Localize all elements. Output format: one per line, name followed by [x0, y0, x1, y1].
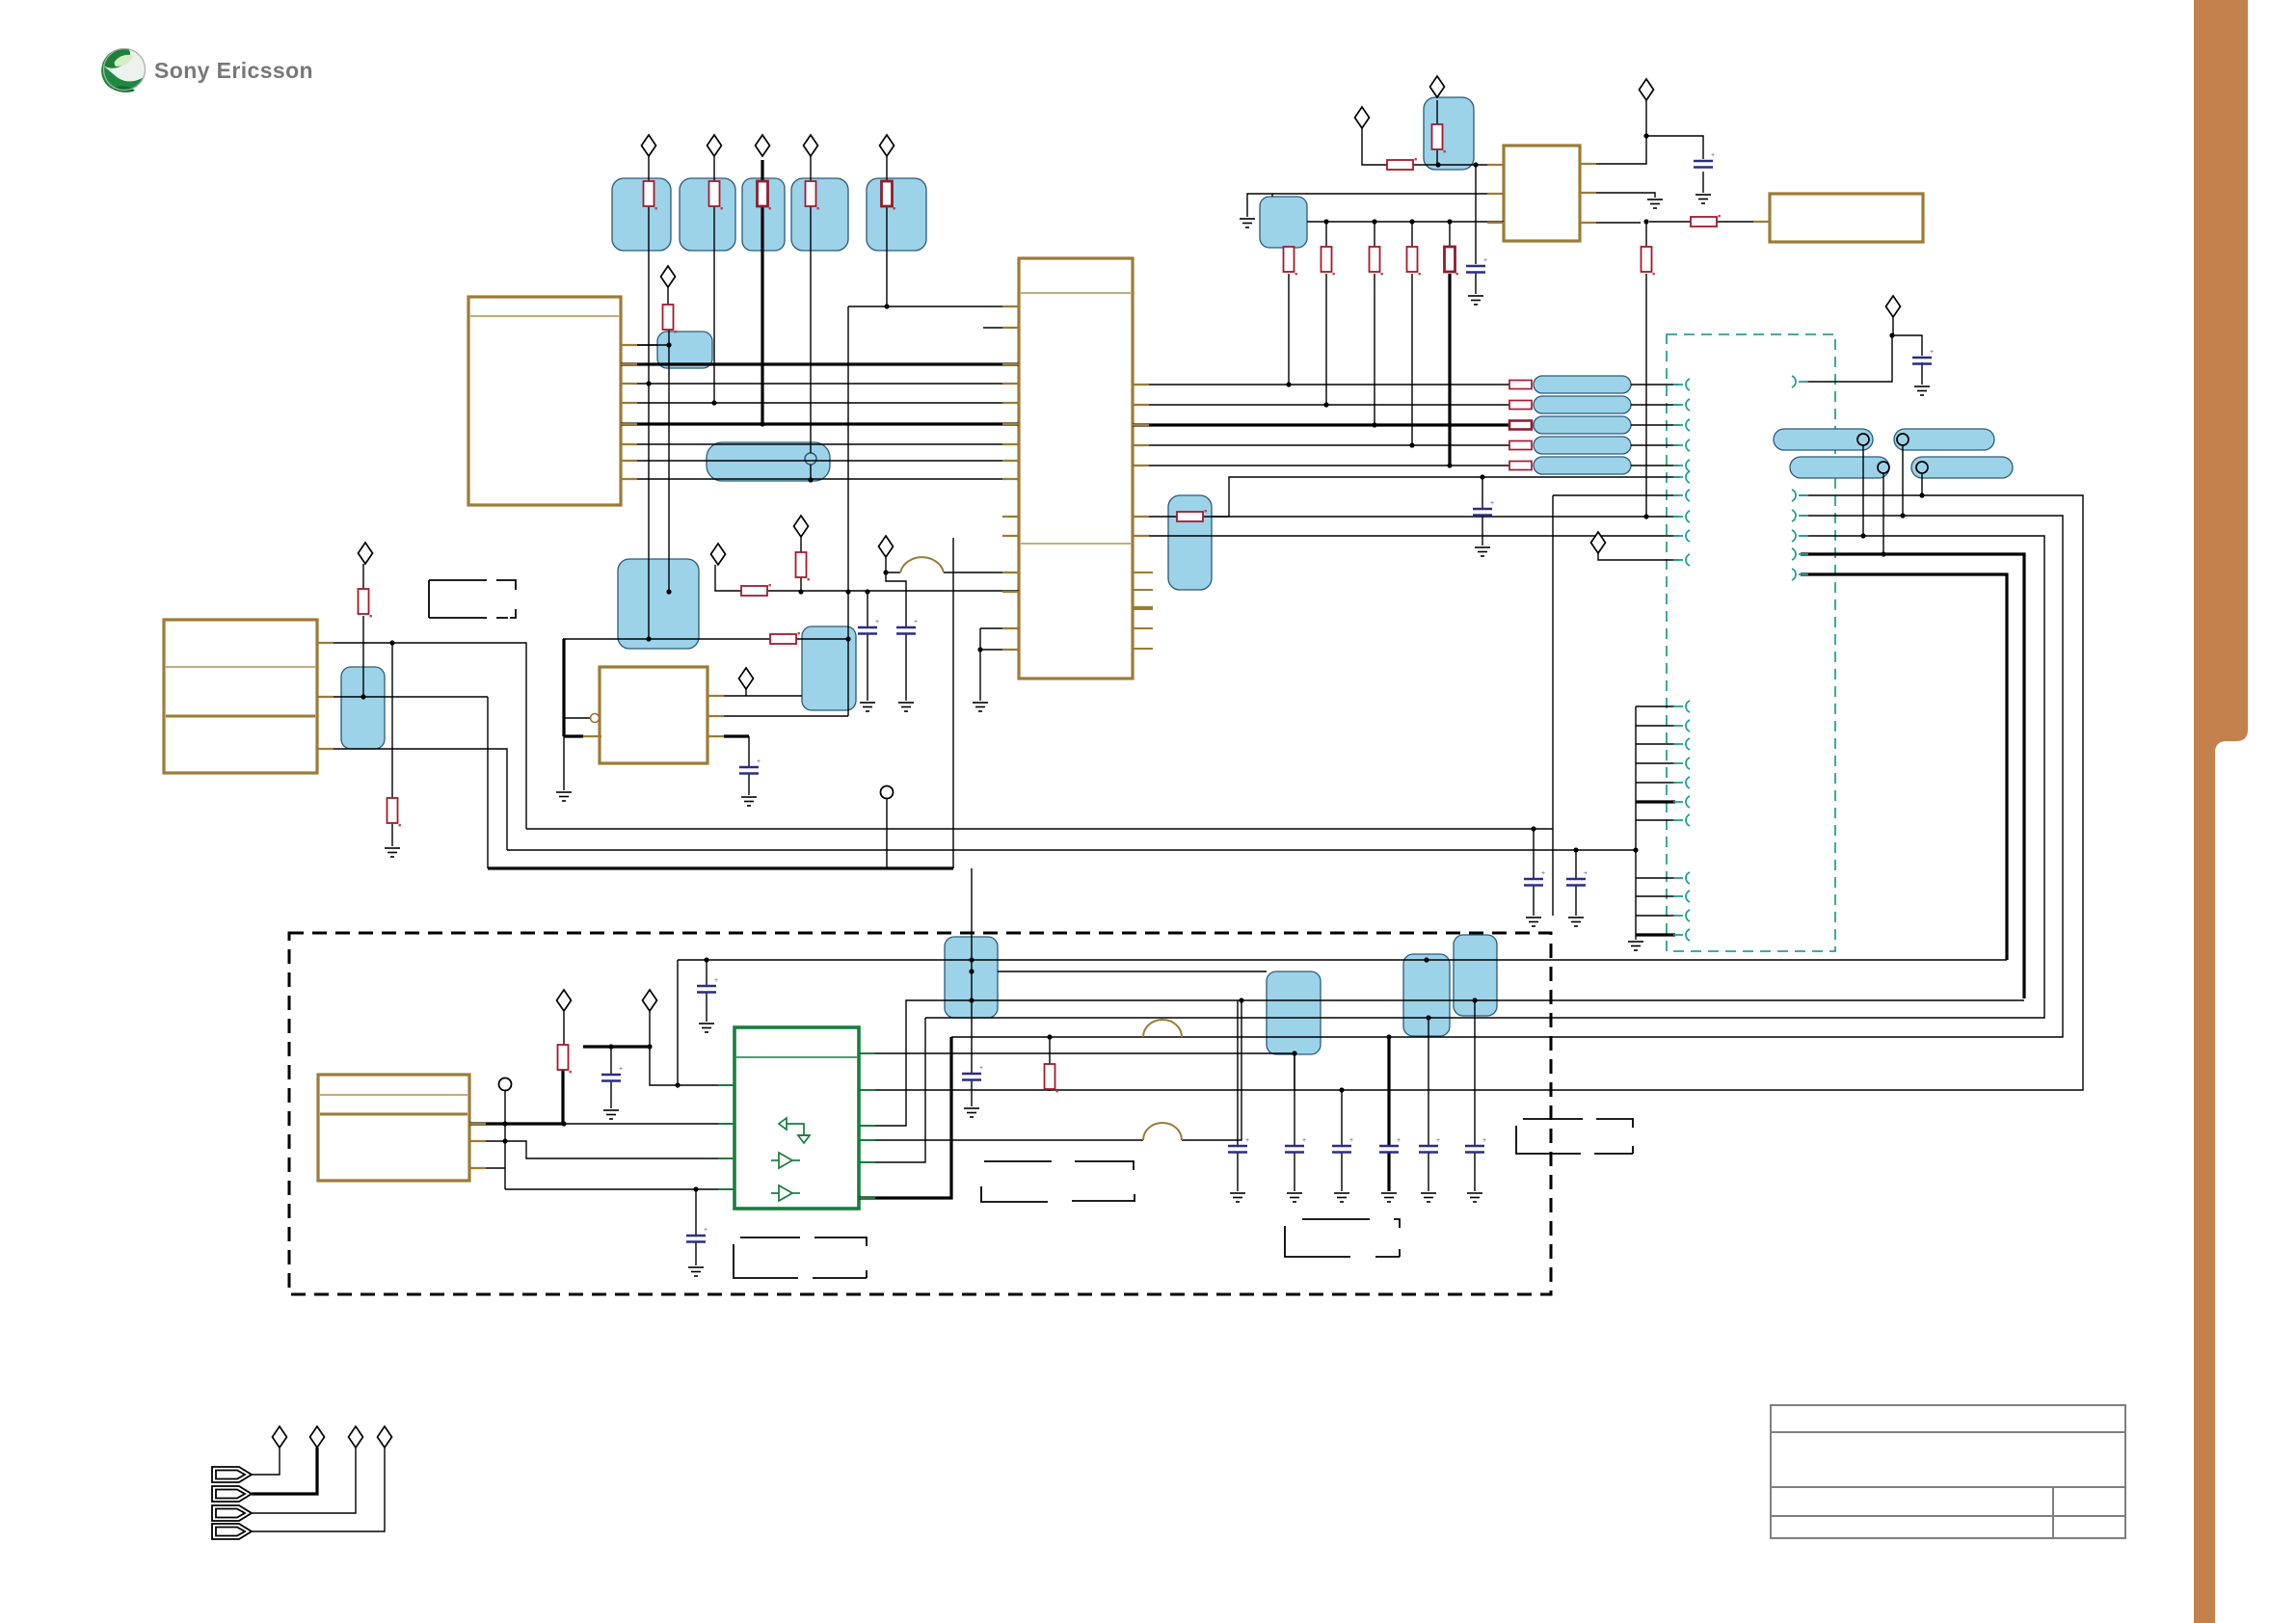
capacitor C4 [896, 619, 918, 634]
highlight box N13 [1168, 495, 1212, 590]
wire connector to diamond F [1806, 335, 1892, 382]
wire u6 bubble link [564, 717, 590, 719]
highlight box N9 [802, 626, 856, 710]
pad circle on pill P9 [1916, 462, 1928, 473]
wire pills to connector [1631, 385, 1679, 466]
resistor R18 [1642, 247, 1655, 275]
resistor R9 [387, 798, 401, 826]
resistor R1 [644, 181, 657, 209]
wire bold main battery net [488, 866, 953, 869]
wire net VDIG4 drop [810, 156, 812, 480]
capacitor C15 [1465, 1137, 1486, 1153]
pad circle on pill P7 [1897, 434, 1909, 445]
wire bold rail y596 [1801, 574, 2007, 960]
resistor R7 [359, 589, 372, 617]
ground G1 [1468, 296, 1483, 305]
wire cap jog [886, 572, 906, 626]
resistor R14 [1322, 247, 1335, 275]
off-page diamond D21 [349, 1426, 363, 1448]
off-page diamond D18 [643, 990, 657, 1011]
U8 audio amplifier block [734, 1027, 859, 1209]
U8 buffer A glyph [771, 1153, 800, 1168]
wire bold r10 lower stem [561, 1069, 564, 1124]
wire resistor net y614 [715, 565, 1019, 591]
inductor arc L3 [1143, 1123, 1182, 1140]
wire net y556 to connector [1133, 535, 1679, 537]
wire h4 net y663 [563, 638, 848, 640]
wire r13 drop [1288, 274, 1290, 385]
resistor R28 pill feed [1509, 462, 1532, 470]
wire riser b15 bottom [1294, 1054, 1295, 1090]
connector arcs right column [1792, 376, 1808, 387]
resistor R25 pill feed [1509, 401, 1532, 410]
off-page diamond D3 [756, 135, 770, 156]
off-page diamond D6 [661, 266, 676, 287]
off-page diamond D19 [273, 1426, 287, 1448]
ground G6 [860, 703, 875, 711]
ground G14 [1568, 918, 1584, 926]
wire net VDIG1 drop [648, 156, 650, 639]
off-page diamond D22 [378, 1426, 392, 1448]
capacitor C8 [962, 1065, 983, 1080]
wire diamond G stem r10 [563, 1011, 565, 1045]
wire green pin y1168 riser [859, 1000, 2024, 1126]
capacitor C10 [1228, 1137, 1249, 1153]
highlight box N11 [1424, 97, 1474, 170]
highlight box N14 [945, 937, 998, 1018]
inductor arc L1 [900, 557, 944, 572]
wire r18 drop [1645, 274, 1647, 517]
wire r11 stems [1049, 1037, 1051, 1091]
wire u7 pin y1205 [469, 1168, 734, 1189]
junction dots group D [704, 957, 708, 962]
wire bold riser x987 [859, 1037, 951, 1198]
wire r7 stem [362, 564, 364, 697]
highlight box N3 [742, 178, 785, 251]
capacitor C9 [686, 1227, 707, 1242]
off-page diamond D16 [1591, 532, 1606, 553]
off-page diamond D2 [707, 135, 722, 156]
off-page diamond D12 [1355, 107, 1370, 128]
wire u3 top-left net [1362, 128, 1504, 165]
wire riser x1008 [971, 868, 973, 1000]
wire bus row u1-u2 d [621, 402, 1019, 404]
gold pin stubs U1 [621, 345, 637, 479]
ground G7 [898, 703, 914, 711]
wire bold u6 right y764 [724, 734, 749, 737]
highlight pill N7 [707, 442, 830, 481]
resistor R4 [806, 181, 819, 209]
highlight box N1 [612, 178, 671, 251]
green pin stubs U8 [718, 1053, 875, 1198]
ground G23 [1381, 1193, 1397, 1202]
wire r15 drop [1374, 274, 1375, 425]
highlight box N10 [341, 667, 385, 749]
wire bus row u1-u2 h [621, 478, 1019, 480]
wire b13 resistor net [1133, 477, 1679, 517]
orange sidebar [2194, 0, 2248, 1623]
resistor R8 [796, 552, 810, 580]
gold pin stubs U2 right [1133, 385, 1149, 536]
off-page diamond D17 [557, 990, 572, 1011]
wire bus row u1-u2 g [621, 460, 1019, 462]
highlight box N12 [1260, 197, 1307, 248]
wire pill pad stems [1863, 445, 1922, 554]
resistor R5 [882, 181, 895, 209]
wire cap c1 stems [1475, 165, 1477, 294]
resistor R27 pill feed [1509, 441, 1532, 450]
pad circle on pill P8 [1878, 462, 1889, 473]
wire y1008 link [998, 971, 1267, 972]
wire cap c6 stem [610, 1047, 612, 1108]
net flag F2 [212, 1486, 252, 1502]
wire cap c2 branch [1646, 136, 1703, 193]
wire flag3 net [252, 1448, 356, 1513]
highlight box N16 [1403, 954, 1450, 1036]
highlight box N8 [618, 559, 699, 649]
resistor R19 [1387, 158, 1417, 170]
ground G3 [1647, 200, 1663, 208]
wire net VDIG5 drop [886, 156, 888, 306]
resistor R13 [1284, 247, 1297, 275]
junction dots group C [1860, 533, 1865, 538]
wire riser from R6 [668, 330, 670, 592]
wire diamond V2 stem [885, 557, 887, 572]
wire cap c3 stem [867, 592, 868, 701]
wire u3 right y231 to U4 [1580, 222, 1770, 223]
wire mic testpoint stem [504, 1090, 506, 1189]
wire riser x506 [487, 697, 489, 868]
wire bold r17 drop [1448, 274, 1451, 466]
wire diamond E stem [1598, 553, 1679, 560]
board-to-board dashed enclosure (teal) [1667, 334, 1835, 951]
off-page diamond D4 [804, 135, 818, 156]
ground G16 [699, 1024, 714, 1032]
wire u3 right y170 up to diamond [1580, 100, 1646, 164]
note bracket C [1285, 1219, 1400, 1257]
off-page diamond D1 [642, 135, 656, 156]
net flag F3 [212, 1505, 252, 1521]
svg-text:Sony Ericsson: Sony Ericsson [154, 58, 313, 83]
wire bold net VDIG3 drop [761, 160, 763, 424]
resistor R20 [1691, 215, 1721, 226]
net pill P6 [1774, 429, 1873, 450]
Sony Ericsson logo ball [101, 48, 146, 93]
wire bold u6 left riser [564, 639, 583, 736]
wire bold pill row y441 [1133, 423, 1509, 426]
pad circle on pill N7 [805, 453, 816, 465]
note bracket B [981, 1161, 1135, 1202]
wire u5 pin y777 [317, 749, 507, 850]
capacitor C2 [1694, 152, 1715, 168]
gold pin stubs U5 [317, 643, 334, 749]
wire u2 stub y340 [983, 327, 1019, 329]
wire r14 drop [1325, 274, 1327, 405]
resistor R3 [758, 181, 771, 209]
wire net y996 [678, 959, 2007, 961]
resistor R10 [558, 1045, 572, 1073]
capacitor C6 [601, 1066, 623, 1081]
highlight box N2 [680, 178, 735, 251]
wire diamond V1 stem [667, 287, 669, 305]
highlight box N6 [657, 332, 712, 368]
wire r18 stub [1645, 222, 1647, 247]
gold pin stubs U2 left [1002, 306, 1019, 650]
wire riser x703 [677, 960, 679, 1085]
resistor R2 [709, 181, 723, 209]
U6 charging block [600, 667, 707, 763]
gold pin stubs U3 [1487, 164, 1596, 223]
wire net row y318 [848, 306, 1019, 307]
resistor R26 pill feed (bold) [1509, 421, 1532, 430]
IC U2 main controller block [1019, 258, 1133, 678]
off-page diamond D11 [739, 668, 754, 689]
ground G24 [1421, 1193, 1436, 1202]
ground G21 [1287, 1193, 1302, 1202]
capacitor C16 [1912, 349, 1934, 364]
highlight box N5 [867, 178, 926, 251]
wire rail y556 [925, 536, 2044, 1018]
wire ladder spine [1635, 706, 1637, 940]
capacitor C19 [1473, 500, 1494, 516]
resistor R16 [1407, 247, 1421, 275]
wire bold bus row y378 [621, 362, 1019, 365]
wire cap c5 stem [748, 736, 750, 795]
capacitor C12 [1332, 1137, 1353, 1153]
capacitor C5 [739, 758, 761, 774]
ground G5 [1914, 386, 1930, 395]
U5 interface block [164, 620, 317, 773]
ground G18 [964, 1108, 979, 1117]
wire u6 gnd pin [563, 736, 565, 790]
note bracket D [734, 1237, 867, 1278]
wire bus u2 right to pills [1133, 385, 1509, 466]
U7 microphone block [318, 1075, 469, 1181]
highlight box N15 [1267, 971, 1321, 1054]
wire diamond F net [1893, 317, 1922, 385]
ground G22 [1334, 1193, 1349, 1202]
resistor R12 [1432, 124, 1446, 152]
resistor R17 [1445, 247, 1458, 275]
ground G13 [1526, 918, 1541, 926]
net pill P3 [1534, 416, 1631, 434]
wire u5 pin y667 [317, 643, 526, 829]
off-page diamond D7 [359, 543, 373, 564]
ground G19 [688, 1267, 704, 1276]
wire bold vbus y1086 [583, 1045, 650, 1048]
wire bold c13 stem [1387, 1037, 1390, 1191]
resistor R6 [663, 305, 677, 333]
capacitor C11 [1285, 1137, 1306, 1153]
U8 buffer B glyph [771, 1185, 800, 1201]
net pill P4 [1534, 437, 1631, 454]
wire cap c7 stem [706, 960, 707, 1022]
ground G17 [603, 1110, 619, 1119]
gold pin stubs U6 [583, 696, 724, 736]
off-page diamond D15 [1886, 296, 1901, 317]
wire u2 gnd pins [980, 628, 1019, 701]
capacitor C14 [1419, 1137, 1440, 1153]
wire testpoint stem [886, 798, 888, 868]
resistor R11 [1045, 1064, 1058, 1092]
off-page diamond D10 [879, 536, 894, 557]
wire rail y535 [951, 516, 2063, 1037]
wire cap c19 stem [1533, 829, 1535, 916]
wire b11 resistor stems [1436, 100, 1438, 165]
wire u5 pin y723 [317, 696, 488, 698]
wire bus row u1-u2 f [621, 443, 1019, 445]
wire gold-arc net [886, 572, 1019, 573]
wire cap row stems [1238, 1000, 1475, 1191]
junction dots group B [1286, 382, 1291, 386]
net pill P9 [1911, 457, 2013, 478]
net pill P7 [1894, 429, 1994, 450]
wire r9 drop [391, 643, 393, 846]
wire bold u7 y1166 [469, 1122, 563, 1125]
wire b6 entry [621, 344, 657, 346]
off-page diamond D9 [794, 516, 809, 537]
U4 connector block [1770, 194, 1923, 242]
audio section dashed enclosure [289, 933, 1551, 1294]
ground G12 [1475, 547, 1490, 556]
off-page diamond D20 [310, 1426, 325, 1448]
net pill P2 [1534, 396, 1631, 413]
testpoint TP2 [499, 1078, 512, 1091]
inductor arc L2 [1143, 1020, 1182, 1037]
wire green pin y1131 [859, 1089, 1342, 1091]
U8 bidirectional buffer glyph [779, 1118, 810, 1143]
wire cap c21 drop [1482, 477, 1483, 545]
wire u7 y1166 thin part [563, 1123, 734, 1125]
wire net y882 [507, 849, 1636, 851]
ground G4 [1240, 219, 1255, 227]
title block table [1771, 1405, 2125, 1538]
resistor R23 [1177, 510, 1207, 521]
wire bold rail y575 [1801, 554, 2024, 998]
connector arcs left column [1673, 379, 1690, 390]
wire u7 pin y1184 [469, 1141, 734, 1158]
note bracket A [429, 580, 516, 618]
junction dots group A [666, 342, 671, 347]
wire cap c9 net [695, 1189, 697, 1265]
wire riser x989 [952, 538, 954, 868]
net flag F1 [212, 1467, 252, 1482]
wire cap c20 stem [1575, 850, 1577, 916]
wire r8 stem [800, 537, 802, 592]
wire diamond stem u6 [745, 689, 747, 696]
resistor R21 [741, 584, 771, 596]
highlight box N17 [1454, 935, 1497, 1016]
gold pin stubs U7 [469, 1124, 486, 1168]
net pill P1 [1534, 376, 1631, 393]
gold pin stub U4 [1753, 221, 1770, 223]
wire green pin y1206 riser [859, 1018, 925, 1162]
wire u3 right y200 gnd [1580, 193, 1655, 198]
off-page diamond D5 [880, 135, 894, 156]
IC U3 regulator block [1504, 146, 1580, 241]
wire cap c4 lower stem [905, 633, 907, 701]
ground G25 [1467, 1193, 1482, 1202]
capacitor C1 [1466, 257, 1487, 273]
ground G11 [385, 848, 400, 857]
wire green arc net y1183 [859, 1000, 1241, 1140]
wire b12 top entry [1271, 194, 1273, 197]
net pill P8 [1790, 457, 1889, 478]
off-page diamond D14 [1640, 79, 1654, 100]
off-page diamond D8 [711, 544, 726, 565]
wire bold flag2 net [252, 1448, 317, 1494]
wire u3 left y231 [1307, 221, 1504, 223]
ground G10 [741, 797, 757, 806]
wire bus row u1-u2 c [621, 383, 1019, 385]
ground G8 [973, 703, 988, 711]
net pill P5 [1534, 457, 1631, 474]
wire net y860 [526, 495, 1553, 916]
wire flag1 net [252, 1448, 280, 1475]
wire rail y514 [1342, 495, 2083, 1090]
wire net y536 to connector [1212, 516, 1679, 518]
highlight box N4 [791, 178, 848, 251]
ground G2 [1695, 195, 1711, 203]
net flag F4 [212, 1524, 252, 1539]
capacitor C18 [1566, 870, 1588, 886]
testpoint TP1 [881, 786, 894, 799]
capacitor C13 [1379, 1137, 1401, 1153]
wire u6 right y722 [707, 695, 802, 697]
IC U1 display/memory block [468, 297, 621, 505]
resistor R24 pill feed [1509, 381, 1532, 470]
wire ladder rungs [1636, 706, 1675, 935]
wire diamond H stem [650, 1011, 734, 1085]
wire resistor top stubs [1326, 222, 1450, 247]
wire riser x880 [707, 306, 848, 716]
ground G20 [1230, 1193, 1245, 1202]
capacitor C7 [697, 977, 718, 993]
capacitor C17 [1524, 870, 1545, 886]
capacitor C3 [858, 619, 879, 634]
wire bold bus row y440 [621, 422, 1019, 425]
inverter bubble U6 [591, 714, 600, 723]
wire r16 drop [1411, 274, 1413, 445]
ground G9 [556, 792, 572, 801]
wire bus row u1-u2 a [621, 344, 669, 346]
gold pin stubs U2 right [1133, 572, 1153, 649]
resistor R22 [770, 632, 800, 644]
wire flag4 net [252, 1448, 385, 1531]
wire cap c8 stem [971, 1000, 973, 1106]
wire u3 left gnd net [1247, 194, 1504, 217]
ground G15 [1628, 942, 1643, 950]
note bracket E [1516, 1119, 1633, 1154]
pad circle on pill P6 [1857, 434, 1869, 445]
wire green pin y1093 [859, 1052, 1295, 1054]
resistor R15 [1370, 247, 1383, 275]
wire bold ladder rungs [1636, 802, 1675, 935]
wire net VDIG2 drop [713, 156, 715, 403]
off-page diamond D13 [1430, 76, 1445, 97]
